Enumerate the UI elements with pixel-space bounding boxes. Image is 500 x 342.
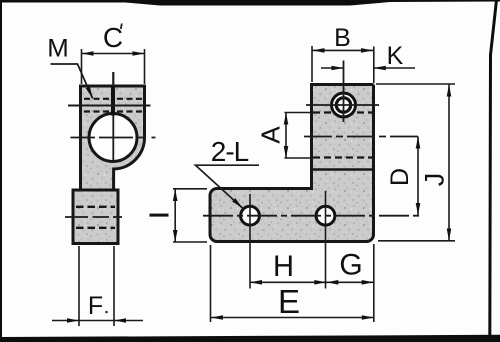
clamp screw centerline (side view) bbox=[68, 105, 151, 107]
tapped hole inner circle bbox=[336, 98, 350, 112]
border frame left bbox=[0, 0, 2, 342]
H arrows bbox=[250, 280, 262, 285]
hidden bore edge upper (front view) bbox=[313, 111, 372, 113]
G arrows bbox=[326, 280, 338, 285]
base hole left bbox=[241, 206, 260, 225]
collar hidden hole dashes lower bbox=[76, 227, 115, 229]
dimension I line bbox=[174, 189, 176, 242]
tapped hole horizontal centerline bbox=[306, 104, 379, 106]
base holes horizontal centerline (extends to D dim) bbox=[203, 215, 421, 217]
tick after C bbox=[121, 24, 122, 30]
svg-text:M: M bbox=[47, 35, 69, 63]
svg-text:E: E bbox=[278, 283, 300, 320]
label I (rotated bar) bbox=[150, 214, 169, 217]
front view plate fill bbox=[312, 85, 374, 191]
side view outline: top edge bbox=[79, 85, 146, 88]
front view base fill bbox=[210, 189, 374, 242]
dot after F bbox=[105, 311, 108, 314]
clamp screw hidden hole dashes upper bbox=[84, 98, 143, 100]
dimension D line bbox=[417, 137, 419, 216]
collar hidden hole dashes upper bbox=[76, 206, 115, 208]
dimension C extension lines bbox=[81, 49, 83, 84]
front view plate left edge bbox=[310, 83, 313, 190]
side view outline: bar right edge bbox=[112, 168, 115, 192]
bore horizontal centerline bbox=[71, 137, 156, 139]
collar hole centerline bbox=[65, 216, 122, 218]
svg-text:A: A bbox=[256, 126, 286, 144]
dimension H/G line bbox=[250, 281, 374, 283]
base hole left vertical centerline/ext bbox=[249, 194, 251, 289]
bore vertical centerline bbox=[112, 116, 114, 163]
hidden bore edge lower (front view) bbox=[313, 156, 372, 158]
clamp slit bbox=[111, 86, 115, 116]
front view plate top edge bbox=[312, 83, 374, 86]
bore vertical centerline stub above part bbox=[112, 72, 114, 86]
svg-text:J: J bbox=[420, 173, 450, 187]
side view outline: clamp right edge bbox=[143, 85, 146, 138]
border frame right bbox=[490, 0, 497, 342]
leader M bbox=[51, 64, 93, 98]
dimension I extension lines bbox=[173, 188, 207, 190]
side view collar outline bbox=[73, 190, 118, 244]
dimension F extension lines bbox=[78, 246, 80, 326]
svg-text:C: C bbox=[103, 22, 123, 53]
dimension B extension lines bbox=[311, 46, 313, 82]
svg-text:G: G bbox=[339, 249, 362, 282]
front view base outline + right edge bbox=[210, 85, 374, 242]
base hole right vertical centerline/ext bbox=[325, 191, 327, 289]
dimension A line bbox=[285, 113, 287, 159]
side view outline: boss arc bbox=[113, 138, 145, 170]
border frame bottom bbox=[0, 335, 500, 342]
leader 2-L bbox=[196, 165, 260, 208]
base hole right bbox=[316, 206, 335, 225]
dimension K line left arrow bbox=[321, 67, 344, 69]
dimension B line bbox=[313, 49, 374, 51]
tapped hole outer circle bbox=[332, 93, 356, 117]
dimension J line bbox=[448, 85, 450, 241]
clamp screw hidden hole dashes lower bbox=[84, 110, 143, 112]
dimension K line right arrow bbox=[374, 67, 415, 69]
dimension E line bbox=[211, 317, 374, 319]
dimension A extension lines bbox=[285, 112, 314, 114]
dimension F line bbox=[52, 320, 143, 322]
bore centerline (front view, extends to D dim) bbox=[304, 136, 421, 138]
svg-text:B: B bbox=[334, 24, 351, 52]
side view outline: left edge bbox=[79, 85, 82, 190]
dimension J extension lines bbox=[376, 83, 455, 85]
tapped hole vertical centerline bbox=[343, 61, 345, 123]
dimension E extension lines bbox=[210, 245, 212, 322]
side view body fill bbox=[73, 86, 145, 244]
svg-text:H: H bbox=[273, 250, 294, 283]
svg-text:D: D bbox=[386, 168, 414, 186]
dimension C line bbox=[82, 53, 145, 55]
svg-text:K: K bbox=[387, 42, 404, 70]
svg-text:2-L: 2-L bbox=[211, 136, 249, 167]
svg-text:F: F bbox=[88, 292, 103, 320]
bore hole (side view) bbox=[89, 114, 137, 162]
border frame top bbox=[0, 0, 500, 6]
boss bottom line (front view) bbox=[312, 168, 374, 171]
